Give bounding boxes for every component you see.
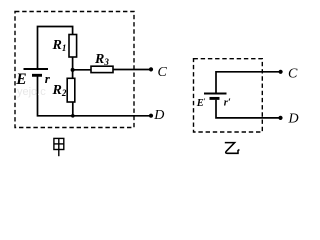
wire node J1 to R3 bbox=[73, 69, 91, 71]
wire R2 bottom to node J2 bbox=[72, 102, 74, 116]
wire battery positive up and top wire to R1 bbox=[38, 27, 73, 70]
resistor R3 bbox=[91, 66, 113, 72]
resistor R2 bbox=[67, 78, 75, 102]
terminal C dot (right) bbox=[279, 70, 283, 74]
enclosure dashed box (circuit 乙) bbox=[194, 59, 263, 132]
svg-text:D: D bbox=[288, 112, 299, 127]
wire node J1 to R2 bbox=[72, 70, 74, 78]
terminal C dot bbox=[149, 67, 153, 71]
resistor R1 bbox=[69, 35, 77, 58]
enclosure dashed box (circuit 甲) bbox=[15, 12, 134, 128]
wire R3 to terminal C bbox=[113, 69, 151, 71]
svg-text:C: C bbox=[158, 65, 168, 80]
node J2 junction dot bbox=[71, 114, 75, 118]
label 甲 (drawn glyph) bbox=[54, 138, 64, 156]
battery E' long plate bbox=[204, 93, 227, 95]
svg-text:yejo.c: yejo.c bbox=[17, 86, 46, 98]
wire battery negative down and bottom wire to terminal D bbox=[38, 77, 152, 116]
svg-text:C: C bbox=[288, 67, 298, 82]
battery E short plate bbox=[32, 74, 42, 77]
terminal D dot (right) bbox=[278, 116, 282, 120]
wire battery E' positive up and right to terminal C bbox=[216, 72, 281, 94]
svg-text:r′: r′ bbox=[224, 98, 231, 109]
node J1 junction dot bbox=[71, 68, 75, 72]
svg-text:D: D bbox=[153, 108, 164, 123]
terminal D dot bbox=[149, 114, 153, 118]
battery E' short plate bbox=[210, 97, 220, 100]
wire battery E' negative down and right to terminal D bbox=[216, 100, 281, 118]
wire R1 bottom to node J1 bbox=[72, 57, 74, 70]
battery E long plate bbox=[24, 68, 49, 70]
label 乙 (drawn glyph) bbox=[225, 143, 240, 154]
